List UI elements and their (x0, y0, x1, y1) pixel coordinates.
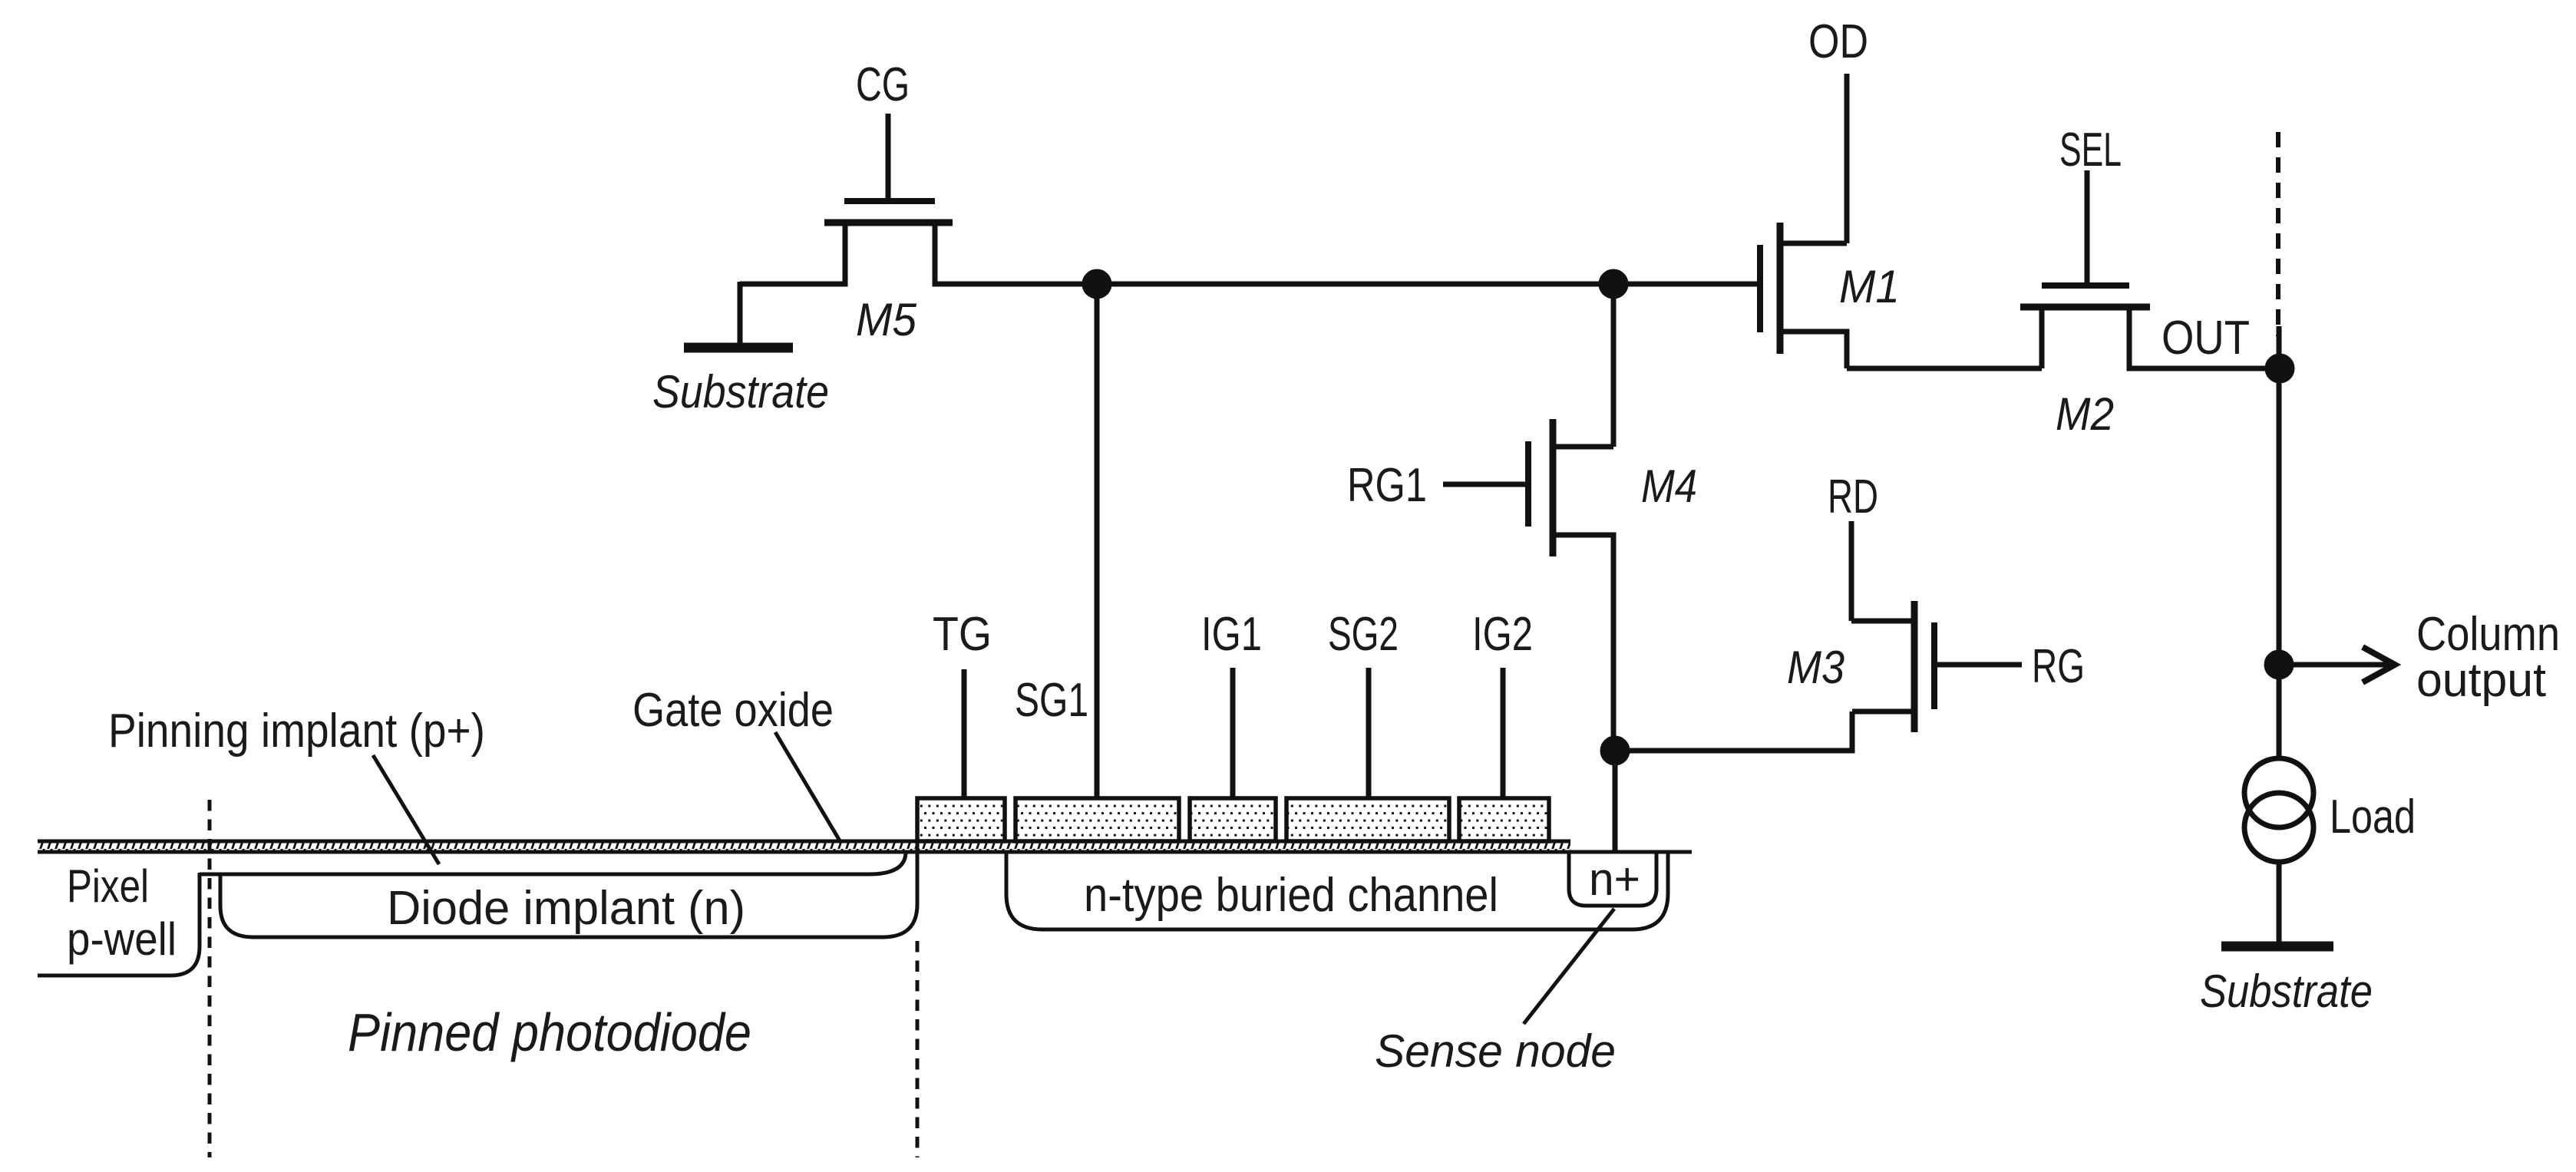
svg-text:p-well: p-well (67, 913, 177, 965)
node B junction dot (1601, 272, 1626, 296)
poly gate IG1 (1190, 798, 1276, 841)
transistor M2 source stub (2039, 307, 2045, 368)
node C junction dot (1603, 738, 1627, 763)
svg-text:RG: RG (2032, 640, 2085, 693)
poly gate TG (917, 798, 1005, 841)
wire SEL lead (2085, 170, 2090, 282)
diode implant outline top (200, 852, 906, 874)
node OUT junction dot (2267, 356, 2292, 381)
svg-text:Substrate: Substrate (652, 366, 829, 418)
poly gate SG2 (1286, 798, 1449, 841)
transistor M4 source arm (1553, 535, 1613, 751)
svg-text:RG1: RG1 (1347, 459, 1427, 512)
svg-text:SG2: SG2 (1328, 608, 1399, 661)
transistor M5 gate lead (CG) (886, 114, 891, 201)
transistor M5 drain stub (935, 223, 1097, 284)
transistor M1 channel bar (1777, 223, 1784, 354)
wire load to ground (2277, 861, 2282, 943)
leader pinning implant (373, 755, 439, 864)
svg-text:M3: M3 (1787, 642, 1844, 693)
surface line right of oxide (1570, 850, 1692, 854)
transistor M2 drain stub (2129, 307, 2280, 368)
leader sense node (1524, 909, 1614, 1024)
wire column output arrow (2279, 662, 2389, 668)
wire RD lead (1849, 521, 1854, 621)
wire node C down to n+ sense node (1613, 751, 1618, 852)
svg-text:n+: n+ (1589, 853, 1640, 905)
current source Load circle 1 (2244, 758, 2313, 827)
svg-text:M4: M4 (1641, 461, 1697, 512)
svg-text:output: output (2416, 654, 2546, 707)
transistor M3 source arm (1852, 709, 1914, 715)
svg-text:Column: Column (2416, 608, 2560, 661)
transistor M5 channel bar (824, 220, 953, 226)
dashed boundary left (208, 800, 212, 1157)
svg-text:SG1: SG1 (1015, 674, 1088, 727)
svg-text:CG: CG (856, 58, 910, 111)
svg-text:Load: Load (2330, 791, 2416, 844)
transistor M3 gate bar (1931, 622, 1937, 709)
svg-text:Sense node: Sense node (1375, 1025, 1616, 1077)
transistor M5 source stub (740, 223, 845, 284)
svg-text:IG1: IG1 (1201, 608, 1262, 661)
svg-text:OD: OD (1808, 15, 1868, 68)
wire TG lead (962, 669, 967, 798)
current source Load circle 2 (2244, 793, 2313, 862)
wire SG1 drop from node A (1095, 284, 1100, 800)
transistor M3 gate lead (RG) (1934, 662, 2022, 668)
svg-text:OUT: OUT (2162, 312, 2250, 365)
transistor M5 gate bar (844, 198, 935, 204)
n-type buried channel outline (1006, 852, 1668, 929)
pixel p-well boundary (38, 873, 200, 976)
transistor M4 drain arm (1553, 444, 1613, 450)
wire dashed column line top (2276, 132, 2280, 336)
svg-text:Gate oxide: Gate oxide (632, 684, 834, 737)
svg-text:SEL: SEL (2059, 124, 2122, 177)
svg-text:Pixel: Pixel (67, 860, 149, 912)
transistor M1 gate bar (1757, 245, 1763, 332)
poly gate IG2 (1459, 798, 1549, 841)
gates (917, 798, 1549, 841)
transistor M3 drain arm (1851, 619, 1914, 624)
wire M1 source to M2 (1847, 366, 2042, 371)
transistor M4 gate lead (RG1) (1443, 482, 1528, 487)
ground substrate left (684, 343, 793, 353)
transistor M2 gate bar (2042, 282, 2129, 289)
transistor M2 channel bar (2020, 304, 2150, 311)
leader gate oxide (775, 732, 841, 842)
transistor M1 source arm (1780, 332, 1847, 368)
node column output dot (2267, 652, 2291, 677)
gate oxide strip (38, 842, 1570, 851)
poly gate SG1 (1016, 798, 1179, 841)
svg-text:Substrate: Substrate (2200, 966, 2373, 1017)
wire main horizontal node1 to node2 (1097, 282, 1613, 287)
svg-text:M2: M2 (2056, 388, 2114, 440)
dashed boundary right (916, 941, 920, 1157)
wire IG1 lead (1230, 668, 1236, 798)
wire column vertical (2277, 326, 2282, 760)
n+ sense diffusion (1569, 852, 1656, 906)
svg-text:Diode implant (n): Diode implant (n) (387, 882, 745, 935)
transistor M4 gate bar (1525, 441, 1531, 527)
wire node2 to M1 gate (1613, 282, 1760, 287)
svg-text:IG2: IG2 (1472, 608, 1533, 661)
diode implant outline bottom (220, 840, 917, 937)
svg-text:M1: M1 (1839, 261, 1900, 312)
wire OD lead (1844, 74, 1850, 243)
svg-text:TG: TG (933, 608, 992, 661)
wire node C to M3 source (1615, 711, 1852, 751)
svg-text:n-type buried channel: n-type buried channel (1084, 869, 1498, 922)
wire SG2 lead (1366, 668, 1372, 798)
wire substrate drop (738, 282, 743, 347)
transistor M1 drain arm (1780, 241, 1847, 246)
wire node B down to M4 drain (1611, 284, 1617, 447)
svg-text:M5: M5 (856, 294, 917, 345)
wire IG2 lead (1501, 668, 1506, 798)
svg-text:RD: RD (1828, 470, 1878, 523)
node A junction dot (1085, 272, 1109, 296)
transistor M4 channel bar (1550, 419, 1557, 556)
transistor M3 channel bar (1911, 601, 1918, 732)
svg-text:Pinned photodiode: Pinned photodiode (348, 1002, 751, 1062)
ground substrate right (2221, 942, 2333, 952)
svg-text:Pinning implant (p+): Pinning implant (p+) (108, 705, 485, 758)
